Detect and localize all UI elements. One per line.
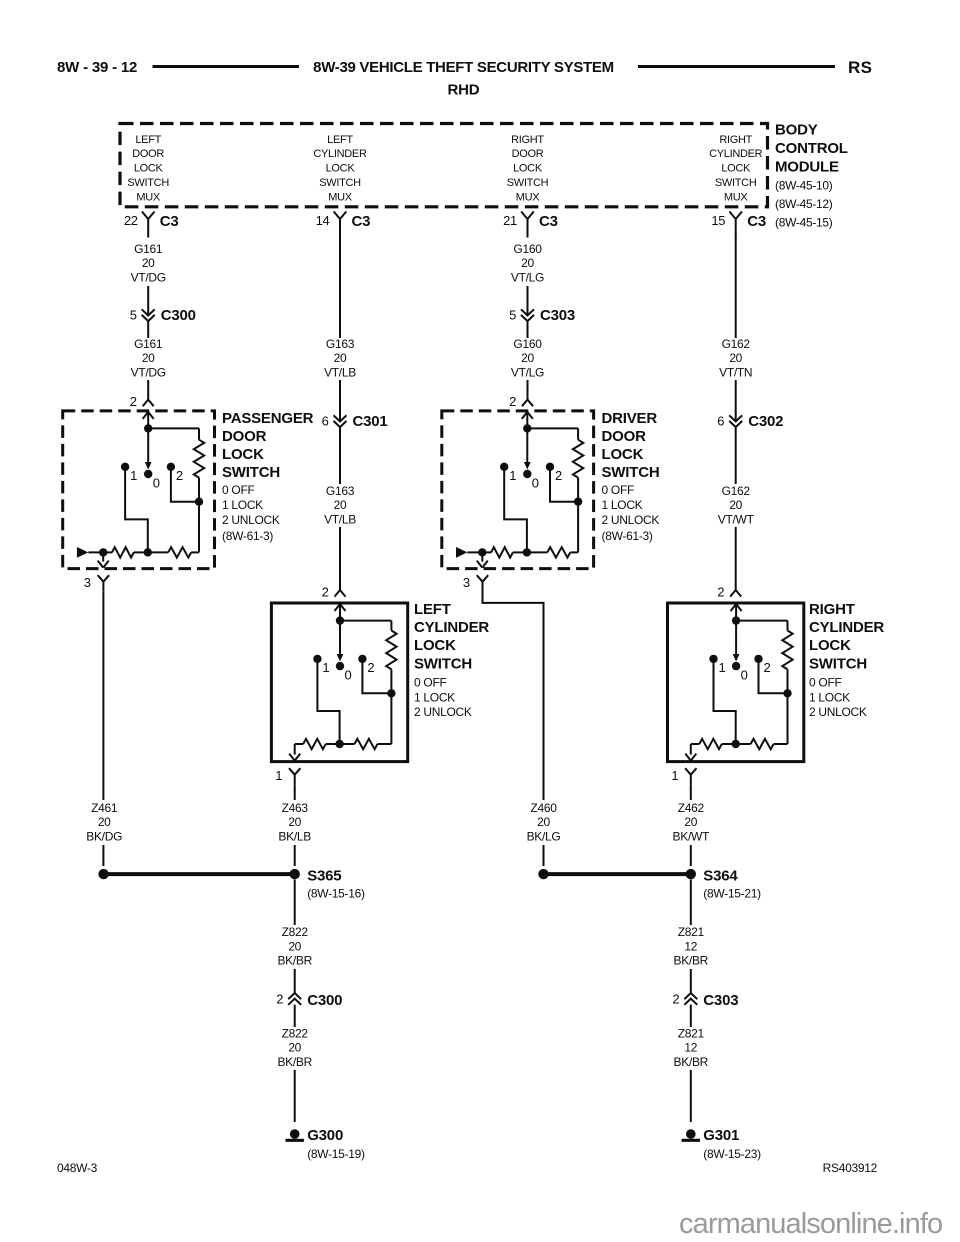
svg-text:20: 20 [142, 256, 155, 270]
wire to G301 [690, 1070, 692, 1122]
svg-text:BK/BR: BK/BR [674, 1055, 709, 1069]
wire junction to resistor branch [340, 620, 391, 622]
svg-text:(8W-15-19): (8W-15-19) [307, 1147, 365, 1161]
svg-text:Z461: Z461 [91, 801, 118, 815]
wire contact 1 to common [317, 662, 339, 744]
wire Z460 lower [543, 845, 545, 866]
wiper arm arrow [735, 621, 737, 655]
ground G301 [686, 1129, 696, 1139]
wiper arm arrow [147, 428, 149, 462]
svg-text:C300: C300 [161, 307, 196, 324]
contact 1 [500, 463, 508, 471]
wire Z461 lower [102, 845, 104, 866]
wire col4 to right cylinder switch [735, 527, 737, 590]
right cylinder lock switch entry arrow [731, 604, 737, 611]
svg-text:LOCK: LOCK [602, 446, 644, 463]
wire Z462 lower [690, 845, 692, 866]
svg-text:2 UNLOCK: 2 UNLOCK [602, 513, 660, 527]
svg-text:2: 2 [322, 585, 329, 600]
svg-text:BK/LB: BK/LB [278, 829, 311, 843]
svg-text:G161: G161 [134, 337, 163, 351]
svg-text:Z821: Z821 [678, 925, 705, 939]
wire below S364 [690, 880, 692, 926]
left cylinder lock switch exit arrow [294, 744, 296, 755]
wire col4 from C3 [735, 236, 737, 338]
svg-text:22: 22 [124, 213, 138, 228]
passenger door lock switch box [63, 411, 215, 569]
body control module U1 box [120, 124, 768, 207]
wire col1 above C300 [147, 286, 149, 316]
svg-text:6: 6 [717, 414, 724, 429]
wire col3 to driver switch [527, 380, 529, 400]
svg-text:CYLINDER: CYLINDER [313, 148, 367, 160]
svg-text:VT/DG: VT/DG [131, 365, 166, 379]
svg-text:G300: G300 [307, 1127, 343, 1144]
wire junction to resistor branch [148, 427, 199, 429]
svg-text:LEFT: LEFT [327, 134, 353, 146]
svg-text:BK/WT: BK/WT [673, 829, 710, 843]
connector C303 pin 5 [521, 309, 534, 315]
svg-text:MUX: MUX [328, 191, 353, 203]
wire Z463 lower [294, 845, 296, 866]
svg-text:5: 5 [509, 308, 516, 323]
svg-text:Z460: Z460 [530, 801, 557, 815]
svg-text:1 LOCK: 1 LOCK [602, 498, 643, 512]
svg-text:BK/BR: BK/BR [277, 1055, 312, 1069]
svg-text:1 LOCK: 1 LOCK [414, 690, 455, 704]
wire resistor to node [390, 669, 392, 693]
header rule left [153, 65, 300, 68]
connector C301 pin 6 [334, 415, 347, 421]
wire below C300 lower [294, 1005, 296, 1027]
resistor lower right [736, 743, 751, 745]
svg-text:VT/WT: VT/WT [718, 512, 755, 526]
svg-text:20: 20 [521, 351, 534, 365]
svg-text:14: 14 [316, 213, 330, 228]
wire Z460 jog [483, 587, 544, 800]
passenger door lock switch junction node [144, 424, 152, 432]
svg-text:VT/LG: VT/LG [511, 365, 544, 379]
svg-text:0: 0 [532, 476, 539, 491]
svg-text:G161: G161 [134, 242, 163, 256]
right cylinder lock switch box [668, 603, 804, 762]
svg-text:12: 12 [684, 939, 697, 953]
svg-text:CONTROL: CONTROL [775, 140, 848, 157]
svg-text:SWITCH: SWITCH [319, 177, 361, 189]
svg-text:BK/BR: BK/BR [674, 954, 709, 968]
svg-text:5: 5 [130, 308, 137, 323]
svg-text:SWITCH: SWITCH [222, 464, 280, 481]
svg-text:20: 20 [288, 815, 301, 829]
svg-text:G162: G162 [722, 337, 751, 351]
common rail [88, 551, 112, 553]
svg-text:0: 0 [153, 476, 160, 491]
svg-text:MUX: MUX [516, 191, 541, 203]
svg-text:(8W-61-3): (8W-61-3) [602, 529, 653, 543]
svg-text:(8W-45-12): (8W-45-12) [775, 197, 833, 211]
svg-text:SWITCH: SWITCH [809, 655, 867, 672]
wire col2 above C301 [339, 380, 341, 422]
svg-text:LOCK: LOCK [721, 163, 751, 175]
resistor upper [782, 631, 792, 670]
driver door lock switch box [442, 411, 594, 569]
svg-text:carmanualsonline.info: carmanualsonline.info [679, 1208, 942, 1240]
svg-text:BK/BR: BK/BR [277, 954, 312, 968]
svg-text:PASSENGER: PASSENGER [222, 410, 314, 427]
wire contact 2 to resistor node [759, 662, 788, 693]
svg-text:(8W-15-23): (8W-15-23) [703, 1147, 761, 1161]
svg-text:C303: C303 [540, 307, 575, 324]
svg-text:2 UNLOCK: 2 UNLOCK [222, 513, 280, 527]
svg-text:LOCK: LOCK [414, 637, 456, 654]
svg-text:DOOR: DOOR [222, 428, 267, 445]
svg-text:(8W-15-21): (8W-15-21) [703, 887, 761, 901]
svg-text:1 LOCK: 1 LOCK [809, 690, 850, 704]
svg-text:20: 20 [288, 1041, 301, 1055]
svg-text:DOOR: DOOR [132, 148, 164, 160]
svg-text:20: 20 [334, 498, 347, 512]
svg-text:Z822: Z822 [282, 925, 309, 939]
wiper rail node [335, 740, 343, 748]
passenger door lock switch entry arrow [143, 412, 149, 419]
wire col1 below C300 [147, 321, 149, 338]
svg-text:2: 2 [555, 468, 562, 483]
wire contact 2 to resistor node [362, 662, 391, 693]
svg-text:BODY: BODY [775, 121, 818, 138]
svg-text:RIGHT: RIGHT [511, 134, 544, 146]
svg-text:DOOR: DOOR [512, 148, 544, 160]
svg-text:C3: C3 [747, 213, 766, 230]
svg-text:SWITCH: SWITCH [414, 655, 472, 672]
svg-text:DOOR: DOOR [602, 428, 647, 445]
svg-text:3: 3 [84, 575, 91, 590]
svg-text:RS403912: RS403912 [823, 1161, 878, 1175]
contact 0 [732, 662, 740, 670]
resistor lower right [148, 551, 168, 553]
svg-text:MODULE: MODULE [775, 159, 839, 176]
wiper rail node [732, 740, 740, 748]
svg-text:Z822: Z822 [282, 1026, 309, 1040]
common rail left [295, 743, 304, 745]
contact 2 [546, 463, 554, 471]
svg-text:2: 2 [367, 660, 374, 675]
svg-text:20: 20 [288, 939, 301, 953]
svg-text:CYLINDER: CYLINDER [414, 619, 489, 636]
driver door lock switch pin 2 [522, 400, 533, 407]
resistor lower right [527, 551, 547, 553]
wire resistor node down [787, 697, 789, 744]
wiper arm arrow [339, 621, 341, 655]
svg-text:RS: RS [848, 58, 872, 77]
wire resistor node down [577, 505, 579, 552]
svg-text:C3: C3 [352, 213, 371, 230]
connector C302 pin 6 [729, 415, 742, 421]
wire junction to resistor branch [736, 620, 787, 622]
svg-text:20: 20 [334, 351, 347, 365]
svg-text:0 OFF: 0 OFF [602, 483, 635, 497]
svg-text:LEFT: LEFT [135, 134, 161, 146]
svg-text:2: 2 [672, 992, 679, 1007]
wire junction to resistor branch [527, 427, 578, 429]
svg-text:3: 3 [463, 575, 470, 590]
svg-text:C303: C303 [703, 992, 738, 1009]
svg-text:2: 2 [176, 468, 183, 483]
contact 0 [523, 470, 531, 478]
wiper input triangle [77, 547, 88, 558]
wire resistor to node [787, 669, 789, 693]
passenger door lock switch exit arrow [102, 552, 104, 561]
wire Z462 [690, 784, 692, 800]
svg-text:VT/TN: VT/TN [719, 365, 752, 379]
svg-text:20: 20 [537, 815, 550, 829]
svg-text:C301: C301 [353, 413, 388, 430]
svg-text:SWITCH: SWITCH [507, 177, 549, 189]
wire above C303 lower [690, 969, 692, 993]
svg-text:BK/DG: BK/DG [86, 829, 122, 843]
svg-text:(8W-45-10): (8W-45-10) [775, 179, 833, 193]
wire resistor node down [198, 505, 200, 552]
svg-text:G163: G163 [326, 484, 355, 498]
svg-text:1: 1 [322, 660, 329, 675]
driver door lock switch pin 3 [477, 575, 483, 582]
svg-text:1 LOCK: 1 LOCK [222, 498, 263, 512]
right cylinder lock switch pin 1 [685, 768, 691, 775]
contact 2 [754, 655, 762, 663]
svg-text:20: 20 [729, 498, 742, 512]
svg-text:048W-3: 048W-3 [57, 1161, 98, 1175]
resistor lower right [340, 743, 355, 745]
svg-text:LOCK: LOCK [513, 163, 543, 175]
svg-text:LEFT: LEFT [414, 601, 451, 618]
header rule right [638, 65, 835, 68]
left cylinder lock switch box [271, 603, 407, 762]
wire contact 1 to common [125, 470, 148, 552]
right cylinder lock switch exit arrow [690, 744, 692, 755]
svg-text:0 OFF: 0 OFF [414, 676, 447, 690]
svg-text:2: 2 [717, 585, 724, 600]
contact 1 [709, 655, 717, 663]
node resistor junction [195, 498, 203, 506]
contact 0 [336, 662, 344, 670]
left cylinder lock switch entry arrow [335, 604, 341, 611]
ground G300 [290, 1129, 300, 1139]
resistor lower left [303, 739, 326, 749]
passenger door lock switch pin 2 [143, 400, 154, 407]
driver door lock switch junction node [523, 424, 531, 432]
svg-text:2 UNLOCK: 2 UNLOCK [414, 705, 472, 719]
connector C3 pin 15 [729, 212, 735, 220]
svg-text:C300: C300 [307, 992, 342, 1009]
wire below S365 [294, 880, 296, 926]
wire to G300 [294, 1070, 296, 1122]
wire resistor to node [577, 478, 579, 502]
svg-text:CYLINDER: CYLINDER [709, 148, 763, 160]
svg-text:1: 1 [275, 768, 282, 783]
svg-text:1: 1 [509, 468, 516, 483]
wire col2 below C301 [339, 427, 341, 484]
svg-text:SWITCH: SWITCH [715, 177, 757, 189]
svg-text:MUX: MUX [136, 191, 161, 203]
svg-text:(8W-45-15): (8W-45-15) [775, 215, 833, 229]
wire col1 to passenger switch [147, 380, 149, 400]
node resistor junction [574, 498, 582, 506]
svg-text:2: 2 [509, 394, 516, 409]
resistor lower left [491, 547, 513, 557]
common rail [467, 551, 491, 553]
connector C300 pin 5 [142, 309, 155, 315]
splice S364 left node [538, 869, 548, 879]
wire col3 below C303 [527, 321, 529, 338]
svg-text:G160: G160 [513, 242, 542, 256]
svg-text:1: 1 [719, 660, 726, 675]
splice S365 [290, 869, 300, 879]
svg-text:BK/LG: BK/LG [527, 829, 561, 843]
svg-text:CYLINDER: CYLINDER [809, 619, 884, 636]
svg-text:0: 0 [345, 668, 352, 683]
connector C303 pin 2 [684, 993, 697, 999]
wire contact 2 to resistor node [171, 470, 199, 502]
svg-text:2 UNLOCK: 2 UNLOCK [809, 705, 867, 719]
wire col3 above C303 [527, 286, 529, 316]
svg-text:C3: C3 [539, 213, 558, 230]
svg-text:20: 20 [684, 815, 697, 829]
contact 1 [121, 463, 129, 471]
svg-text:LOCK: LOCK [134, 163, 164, 175]
driver door lock switch entry arrow [522, 412, 528, 419]
svg-text:LOCK: LOCK [222, 446, 264, 463]
left cylinder lock switch pin 1 [289, 768, 295, 775]
resistor upper [386, 631, 396, 670]
common rail left [691, 743, 700, 745]
svg-text:G301: G301 [703, 1127, 739, 1144]
svg-text:8W - 39 - 12: 8W - 39 - 12 [57, 59, 137, 76]
splice S364 [686, 869, 696, 879]
svg-text:6: 6 [322, 414, 329, 429]
connector C3 pin 21 [521, 212, 527, 220]
svg-text:2: 2 [130, 394, 137, 409]
svg-text:VT/LB: VT/LB [324, 512, 356, 526]
svg-text:SWITCH: SWITCH [602, 464, 660, 481]
svg-text:G162: G162 [722, 484, 751, 498]
wire contact 1 to common [714, 662, 736, 744]
svg-text:S364: S364 [703, 868, 738, 885]
svg-text:20: 20 [729, 351, 742, 365]
svg-text:VT/LG: VT/LG [511, 270, 544, 284]
connector C3 pin 14 [334, 212, 340, 220]
common node [99, 548, 107, 556]
wire col4 below C302 [735, 427, 737, 484]
svg-text:12: 12 [684, 1041, 697, 1055]
svg-text:0 OFF: 0 OFF [222, 483, 255, 497]
svg-text:RIGHT: RIGHT [719, 134, 752, 146]
wire Z461 [102, 591, 104, 800]
right cylinder lock switch pin 2 [730, 590, 741, 597]
contact 1 [313, 655, 321, 663]
driver door lock switch exit arrow [481, 552, 483, 561]
svg-text:RIGHT: RIGHT [809, 601, 855, 618]
svg-text:0 OFF: 0 OFF [809, 676, 842, 690]
svg-text:SWITCH: SWITCH [127, 177, 169, 189]
svg-text:(8W-15-16): (8W-15-16) [307, 887, 365, 901]
svg-text:15: 15 [711, 213, 725, 228]
left cylinder lock switch pin 2 [335, 590, 346, 597]
left cylinder lock switch junction node [336, 616, 344, 624]
svg-text:MUX: MUX [724, 191, 749, 203]
contact 0 [144, 470, 152, 478]
svg-text:VT/LB: VT/LB [324, 365, 356, 379]
wiper arm arrow [526, 428, 528, 462]
node resistor junction [783, 689, 791, 697]
node resistor junction [387, 689, 395, 697]
svg-text:S365: S365 [307, 868, 341, 885]
wiper rail node [513, 551, 527, 553]
svg-text:2: 2 [276, 992, 283, 1007]
wire above C300 lower [294, 969, 296, 993]
svg-text:C302: C302 [748, 413, 783, 430]
passenger door lock switch pin 3 [98, 575, 104, 582]
svg-text:VT/DG: VT/DG [131, 270, 166, 284]
wiper input triangle [456, 547, 467, 558]
svg-text:1: 1 [671, 768, 678, 783]
svg-text:Z462: Z462 [678, 801, 705, 815]
wire col2 to left cylinder switch [339, 527, 341, 590]
svg-text:C3: C3 [160, 213, 179, 230]
right cylinder lock switch junction node [732, 616, 740, 624]
splice S365 left node [98, 869, 108, 879]
connector C300 pin 2 [288, 993, 301, 999]
svg-text:(8W-61-3): (8W-61-3) [222, 529, 273, 543]
svg-text:0: 0 [741, 668, 748, 683]
wire resistor node down [390, 697, 392, 744]
svg-text:LOCK: LOCK [809, 637, 851, 654]
wire col2 from C3 [339, 236, 341, 338]
wiper rail node [134, 551, 148, 553]
svg-text:2: 2 [764, 660, 771, 675]
svg-text:RHD: RHD [448, 82, 480, 99]
svg-text:20: 20 [98, 815, 111, 829]
wire contact 2 to resistor node [550, 470, 578, 502]
wire contact 1 to common [504, 470, 527, 552]
resistor upper [194, 440, 204, 478]
connector C3 pin 22 [142, 212, 148, 220]
svg-text:20: 20 [521, 256, 534, 270]
svg-text:Z463: Z463 [282, 801, 309, 815]
svg-text:21: 21 [503, 213, 517, 228]
svg-text:G163: G163 [326, 337, 355, 351]
svg-text:1: 1 [130, 468, 137, 483]
contact 2 [167, 463, 175, 471]
svg-text:LOCK: LOCK [326, 163, 356, 175]
svg-text:DRIVER: DRIVER [602, 410, 658, 427]
svg-text:G160: G160 [513, 337, 542, 351]
common node [478, 548, 486, 556]
svg-text:20: 20 [142, 351, 155, 365]
resistor lower left [699, 739, 722, 749]
resistor lower left [112, 547, 134, 557]
wire resistor to node [198, 478, 200, 502]
contact 2 [358, 655, 366, 663]
svg-text:Z821: Z821 [678, 1026, 705, 1040]
wire col4 above C302 [735, 380, 737, 422]
wire below C303 lower [690, 1005, 692, 1027]
wire Z463 [294, 784, 296, 800]
svg-text:8W-39 VEHICLE THEFT SECURITY S: 8W-39 VEHICLE THEFT SECURITY SYSTEM [313, 59, 614, 76]
resistor upper [573, 440, 583, 478]
